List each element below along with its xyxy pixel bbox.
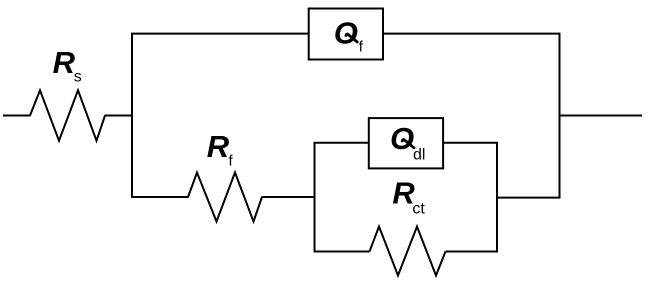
wire node A branch: bottom stub, left vertical, top-left run xyxy=(132,34,309,197)
svg-text:f: f xyxy=(229,153,234,170)
svg-text:s: s xyxy=(74,69,82,86)
resistor R_f xyxy=(188,173,262,222)
label R_s xyxy=(53,45,82,86)
CPE Q_dl box xyxy=(369,118,443,168)
label Q_f xyxy=(334,15,364,55)
Q_f tail stroke xyxy=(346,34,357,42)
wire output right xyxy=(560,115,643,117)
svg-text:R: R xyxy=(53,45,76,80)
Q_dl tail stroke xyxy=(402,140,414,148)
wire R_f to sub-parallel node xyxy=(262,196,315,198)
label R_ct xyxy=(392,175,425,217)
svg-text:dl: dl xyxy=(413,146,425,163)
svg-text:O: O xyxy=(390,121,414,156)
wire input left xyxy=(3,115,31,117)
CPE Q_f box xyxy=(309,9,383,60)
resistor R_ct xyxy=(370,227,446,276)
svg-text:ct: ct xyxy=(412,200,425,217)
label R_f xyxy=(207,129,234,170)
wire sub-parallel left vertical with top and bottom stubs xyxy=(315,143,370,252)
svg-text:f: f xyxy=(359,38,364,55)
label Q_dl xyxy=(390,121,425,163)
svg-text:O: O xyxy=(334,15,358,50)
wire sub-parallel right vertical with top and bottom stubs xyxy=(443,143,497,252)
svg-text:R: R xyxy=(207,129,230,164)
wire top-right run, right vertical, bottom-right stub xyxy=(383,34,560,198)
wire R_s to node A xyxy=(105,115,133,117)
resistor R_s xyxy=(30,90,105,140)
